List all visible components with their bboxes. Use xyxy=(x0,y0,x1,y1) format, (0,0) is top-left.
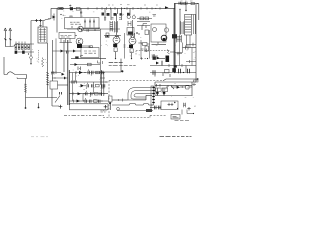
tube V2 internals xyxy=(131,36,134,42)
transformer T2 winding mid xyxy=(115,21,118,33)
tube V1 second lead xyxy=(118,36,120,38)
parts under box xyxy=(71,26,72,27)
resistor R10 xyxy=(156,88,162,91)
junction cross X1 xyxy=(35,19,38,22)
ground G1 cross xyxy=(59,105,63,109)
wire V1 drop xyxy=(116,14,117,59)
component on bus xyxy=(75,56,78,58)
tab on U3 xyxy=(89,46,93,48)
Q4 fill xyxy=(162,38,165,41)
wire bottom long xyxy=(112,104,153,111)
capacitor C12 dark xyxy=(166,56,170,63)
wire vertical x180 xyxy=(179,9,181,35)
component cluster box top xyxy=(70,16,73,18)
marks left of D9 xyxy=(152,55,156,57)
parts left of cap xyxy=(152,54,158,59)
tick y100 xyxy=(122,99,124,102)
wire left tall vertical xyxy=(3,57,5,75)
flyback T3 xyxy=(185,15,192,36)
node y100 xyxy=(118,99,119,100)
dashed yoke box bottom xyxy=(103,117,150,119)
light box on bus xyxy=(76,8,80,11)
terminal strip box xyxy=(70,104,109,110)
resistor RB3 xyxy=(21,45,23,50)
junction cross above transformer xyxy=(39,21,41,28)
wire under U4 box xyxy=(152,42,167,44)
faint bottom-left marks xyxy=(31,136,48,138)
module box M1 xyxy=(50,81,58,89)
node on y72 wire xyxy=(174,72,175,73)
row2 resistor xyxy=(96,84,100,87)
wire vertical x69.3 box edge xyxy=(68,70,70,105)
component row under bus 4 xyxy=(120,13,123,15)
regulator box U2 xyxy=(59,33,75,39)
resistor RA1 xyxy=(165,70,170,73)
wire vertical x192 xyxy=(191,48,193,66)
node x186 xyxy=(185,10,186,11)
wire mess right low xyxy=(157,52,175,70)
choke L2 winding hatches xyxy=(24,84,27,92)
capacitor C9 xyxy=(22,51,25,54)
yoke harness loop 1 xyxy=(128,88,152,101)
yoke harness loop 2 xyxy=(131,91,152,100)
wire y61.5 right xyxy=(186,61,196,63)
dark blob riser base xyxy=(172,68,176,72)
caption bottom right xyxy=(160,135,192,137)
transformer T2 winding left xyxy=(110,21,113,32)
transistor Q2 xyxy=(153,28,157,32)
tiny dash text under strip xyxy=(101,111,107,112)
resistor RB5 xyxy=(28,45,30,50)
wires from Q0 right xyxy=(83,28,100,30)
wire diode lead xyxy=(53,14,55,21)
wire Q1 feed xyxy=(75,35,77,37)
ticks above resistor bank xyxy=(16,42,25,45)
label U3 xyxy=(84,51,96,53)
label POWER UNIT line1 xyxy=(109,62,123,64)
dots near x61 xyxy=(60,14,61,15)
wire y51 link xyxy=(53,50,82,52)
small box right top corner xyxy=(194,80,199,82)
wire top cluster row y72 right xyxy=(150,72,196,74)
node x155 xyxy=(155,8,156,9)
marks right cluster y48-52 xyxy=(141,49,147,53)
ticks near x100 xyxy=(98,61,103,65)
wire vertical x182.5 low xyxy=(182,43,184,48)
row2 extra caps xyxy=(102,84,105,87)
wire vertical x149.5 xyxy=(149,30,151,59)
wire vertical x48 xyxy=(47,43,49,98)
wire y44.5 right of flyback xyxy=(186,43,196,46)
tube V1 circle xyxy=(113,37,120,44)
plug prong arrow left xyxy=(4,28,7,47)
wire row bottom xyxy=(155,82,193,96)
label POWER UNIT line2 xyxy=(109,65,136,67)
wire row mid xyxy=(155,84,192,87)
wire Q1 to right xyxy=(82,46,90,48)
label SW201 xyxy=(173,116,179,118)
tube V2 leads up xyxy=(131,33,135,38)
node below box xyxy=(177,108,178,109)
row3 caps xyxy=(86,92,93,95)
pilot lamp xyxy=(117,107,120,110)
marks on y30 xyxy=(87,29,89,31)
label in box U1 xyxy=(70,22,81,24)
resistor R5 zigzag xyxy=(42,58,44,67)
wire drop x57 long xyxy=(56,8,58,32)
wire VD1 down xyxy=(30,60,32,63)
right column verticals rows xyxy=(100,70,105,96)
resistor RB1 xyxy=(15,45,17,50)
row2 caps xyxy=(87,84,93,87)
wire M1 out xyxy=(58,84,68,86)
diode D6 xyxy=(62,73,65,76)
row4 extra caps xyxy=(99,100,101,103)
output row2 wire xyxy=(69,81,108,83)
wire y78 left xyxy=(52,77,68,79)
flyback T3 hatches xyxy=(185,17,191,32)
plug contact right xyxy=(9,39,11,40)
diode D2 xyxy=(61,50,64,53)
node A xyxy=(63,8,64,9)
capacitor C10 xyxy=(67,51,69,54)
wire dashed drop x38.5 upper xyxy=(38,50,40,60)
resistor row right 2 xyxy=(145,17,149,20)
wire drop to SW box xyxy=(182,110,193,115)
wire drop x43 to transformer xyxy=(42,21,44,28)
output row vertical join xyxy=(72,73,74,102)
small circle pair mid-top a xyxy=(127,15,130,18)
dots cluster x137 xyxy=(136,32,138,34)
plug contact left xyxy=(4,39,6,40)
wire y18.8 stub xyxy=(48,18,51,20)
blob under riser xyxy=(174,65,177,67)
relay K1 xyxy=(127,28,134,36)
resistor row right 1 xyxy=(140,17,144,20)
wire vertical x64 xyxy=(63,40,65,72)
extra row marks xyxy=(72,71,76,103)
heatsink blob Q1 xyxy=(77,44,82,48)
wire plug to resistors xyxy=(5,44,15,47)
resistor R101 xyxy=(191,2,194,4)
wire y24 xyxy=(137,26,150,31)
junction cross X2 xyxy=(39,19,42,22)
parts above relay xyxy=(128,21,131,26)
dashed yoke box top xyxy=(109,80,163,82)
flyback right verticals xyxy=(194,15,196,35)
winding L3 hatches xyxy=(46,73,49,86)
tube V2 cathode blob xyxy=(129,45,133,48)
focus pot box xyxy=(109,96,113,102)
label U2 xyxy=(61,35,72,37)
transformer T1 xyxy=(38,27,47,43)
transistor Q3 xyxy=(164,28,168,32)
component row under bus 1 xyxy=(102,13,105,16)
wire vertical x25.5 down xyxy=(25,79,27,109)
resistor R6 xyxy=(88,63,92,66)
diode D4 xyxy=(75,63,78,66)
row4 resistor xyxy=(94,100,98,103)
wire flyback bottom drops xyxy=(187,35,191,48)
wire flyback top link xyxy=(192,14,197,16)
X box on top line xyxy=(182,2,186,4)
diode D3 xyxy=(73,50,76,53)
capacitor C13 xyxy=(60,92,62,95)
wire resistor bank top xyxy=(15,43,34,45)
drops below U2 box xyxy=(60,38,73,42)
diode D9 xyxy=(157,57,160,60)
plug prong arrow right xyxy=(9,28,12,44)
row2 parts xyxy=(75,81,77,84)
wire y64.5 xyxy=(70,64,100,66)
wire y35.5 under windings xyxy=(104,36,121,38)
transistor Q4 dark xyxy=(161,35,167,41)
marks y53 x176-182 xyxy=(177,52,183,56)
tube V1 cathode blob xyxy=(113,44,117,47)
output row3 wire xyxy=(69,93,108,95)
wire vertical between tubes xyxy=(124,33,126,59)
capacitor pair CA1 xyxy=(153,70,155,74)
caption center tiny text xyxy=(64,114,104,116)
node J1 xyxy=(183,3,184,4)
node row xyxy=(182,86,183,87)
wire x110.5 xyxy=(110,102,112,110)
switch box SW201 xyxy=(171,115,180,120)
connector bar xyxy=(151,86,154,105)
wire drop x81 xyxy=(80,8,82,17)
plus marks in box xyxy=(168,103,174,106)
yoke harness loop 3 xyxy=(134,94,152,98)
inter-row links xyxy=(76,73,94,102)
marks row y57-60 xyxy=(140,57,146,60)
resistor RB2 xyxy=(18,45,20,50)
driver box U3 xyxy=(81,48,99,58)
wire drops row xyxy=(157,88,164,93)
wire bus y58.6 xyxy=(71,58,106,60)
resistor right of V2 xyxy=(143,43,148,46)
node end dot x25.5 xyxy=(25,107,27,109)
parts y68 xyxy=(78,67,81,71)
capacitor C102 xyxy=(186,2,188,5)
capacitor C2 xyxy=(80,12,82,13)
node riser top xyxy=(174,3,175,4)
winding L4 xyxy=(177,35,182,43)
node on y72 wire b xyxy=(183,72,184,73)
connector pins xyxy=(152,88,155,103)
switch S2 diagonal xyxy=(55,96,60,103)
node dots under bank xyxy=(28,53,29,54)
wire V2 drop xyxy=(132,20,133,59)
diode low left xyxy=(156,62,159,65)
wire drop x31 xyxy=(30,21,32,45)
corner mark x143 xyxy=(143,24,147,27)
component under winding left xyxy=(106,33,109,38)
wire corner down x26.5 xyxy=(17,75,27,79)
wire vertical x179.5 xyxy=(179,35,181,66)
resistor R1 xyxy=(58,7,63,9)
diode D1 xyxy=(53,16,56,19)
row1 caps xyxy=(88,71,93,74)
wire resistor bank bottom xyxy=(15,51,34,53)
node dark left of bottom box xyxy=(109,102,111,104)
wire main top bus xyxy=(51,7,175,9)
capacitor C7 xyxy=(93,19,95,28)
row4 diode xyxy=(77,100,81,103)
diode D8 xyxy=(177,86,180,89)
node under box xyxy=(77,28,78,29)
parts left of row1 xyxy=(51,71,61,74)
dashed yoke box left xyxy=(108,81,110,118)
row2 diode xyxy=(81,84,85,87)
node x122.5 xyxy=(121,70,123,72)
sync box U4 xyxy=(151,24,166,42)
wire riser to top bus xyxy=(174,4,176,72)
connector hatched right xyxy=(146,109,152,112)
wire vertical x31 through bank xyxy=(30,44,32,55)
capacitor C101 xyxy=(179,2,181,5)
row1 extra caps xyxy=(102,71,104,74)
node J2 xyxy=(197,3,198,4)
transistor Q1 internals xyxy=(78,40,81,44)
row1 diode xyxy=(79,71,83,74)
transistor Q1 circle xyxy=(76,38,83,45)
node bus y58.6 b xyxy=(131,58,132,59)
wire y100 xyxy=(112,99,128,101)
dots row mid top xyxy=(124,8,125,9)
capacitor ticks on bus xyxy=(102,7,133,10)
dark cluster under riser xyxy=(172,34,177,38)
solid top right segment xyxy=(163,79,199,81)
pot wiper zigzag xyxy=(171,86,174,89)
bottom right box xyxy=(161,101,178,110)
wire top-right bus xyxy=(175,3,200,5)
wires y65 right xyxy=(150,66,196,73)
cap dark E1 xyxy=(156,93,158,96)
wire drop x51 xyxy=(50,8,52,18)
wire vertical x141 xyxy=(140,40,142,59)
output row4 wire xyxy=(69,100,108,102)
ground below box xyxy=(187,107,190,111)
wire stub x38.5 xyxy=(38,103,40,107)
resistor R11 xyxy=(162,88,168,91)
diode D7 xyxy=(64,77,66,80)
specks above bus labels xyxy=(108,4,158,7)
resistor RB4 xyxy=(25,45,27,50)
wires y16-22 right xyxy=(137,19,152,22)
resistor R8 xyxy=(130,49,133,53)
node in box xyxy=(174,102,175,103)
specks top right xyxy=(181,0,193,2)
extra ticks on main bus xyxy=(62,7,160,9)
wire right border vertical xyxy=(198,4,200,20)
tube V1 internals xyxy=(115,35,118,41)
capacitor C8 xyxy=(15,51,18,54)
micro-label specks xyxy=(16,11,196,106)
row1 resistor xyxy=(96,71,100,74)
row junction dots xyxy=(84,72,85,73)
corner mark x80.5 xyxy=(81,56,84,58)
wire y47.5 right xyxy=(183,47,197,49)
node end dot x38.5 xyxy=(38,107,40,109)
fuse F1 xyxy=(16,44,19,45)
marks top right row xyxy=(193,83,197,86)
cap dark E2 xyxy=(163,93,165,96)
right circuit row wire top xyxy=(155,82,196,96)
dashed line y50.7 xyxy=(136,50,170,52)
wire under box xyxy=(67,28,120,30)
parts x152-158 xyxy=(153,15,157,17)
component row under bus 5 xyxy=(127,13,130,16)
resistor R9 zigzag xyxy=(167,50,170,55)
caps on wire xyxy=(155,106,161,110)
wire drops from y72 xyxy=(155,73,170,78)
marks y17-20 left-mid xyxy=(104,18,121,20)
yoke harness loop 4 xyxy=(146,95,152,100)
wire vertical x186 stub xyxy=(185,4,187,11)
top cluster right of T2: wire x121 drop xyxy=(100,59,121,72)
transformer T1 windings xyxy=(39,30,46,40)
resistor R7 xyxy=(114,48,117,52)
vertical marks x162 xyxy=(161,61,163,67)
node right top xyxy=(197,78,198,79)
row3 resistor xyxy=(95,92,99,95)
capacitor pair CA3 xyxy=(188,69,190,74)
capacitor blob on bus xyxy=(70,7,73,10)
small rect x145 xyxy=(145,30,149,35)
wire vertical x67.8 thick xyxy=(67,40,69,105)
wire y52 right xyxy=(175,48,183,53)
wire long vertical x100.5 xyxy=(100,29,102,85)
wire AC fragment y20.5 xyxy=(31,19,50,21)
tick y65.5 xyxy=(169,64,182,67)
capacitor pair CA2 xyxy=(179,69,181,74)
cap hatched in box xyxy=(184,103,186,108)
parts y47 xyxy=(186,46,189,50)
wire x52 drop xyxy=(52,89,59,106)
varistor VD1 diamond xyxy=(30,55,33,60)
wire y30.4 under box xyxy=(94,29,96,31)
row3 diode xyxy=(78,92,82,95)
row1 parts xyxy=(97,71,100,74)
control box U1 xyxy=(65,18,99,29)
row lead stubs xyxy=(86,69,92,99)
row3 extra caps xyxy=(100,92,102,95)
wire right vertical x196 xyxy=(195,4,197,82)
wire into box xyxy=(150,107,161,109)
small circle pair mid-top b xyxy=(132,16,135,19)
component right xyxy=(186,86,189,89)
tube V2 circle xyxy=(129,38,136,45)
capacitor C6 xyxy=(89,19,91,28)
transistor Q0 circle upper xyxy=(78,26,84,32)
capacitor C5 xyxy=(84,19,86,28)
tick y61.5 xyxy=(189,60,191,63)
wire top area drops xyxy=(105,8,130,21)
component row under bus 2 xyxy=(107,13,110,16)
node x180 xyxy=(179,9,180,10)
switch S1 hook xyxy=(4,72,27,75)
wire long verticals center xyxy=(52,40,54,81)
wire y41 V2 to parts xyxy=(138,43,149,44)
wire y97.5 to center xyxy=(26,97,58,99)
terminal cross inside xyxy=(104,105,108,109)
node bus y58.6 a xyxy=(115,58,116,59)
row4 caps xyxy=(85,100,91,103)
winding ladder x180.5-184 xyxy=(181,21,185,34)
output row1 wire xyxy=(69,72,105,74)
diode D5 xyxy=(165,6,169,9)
component row under bus 3 xyxy=(114,13,117,16)
